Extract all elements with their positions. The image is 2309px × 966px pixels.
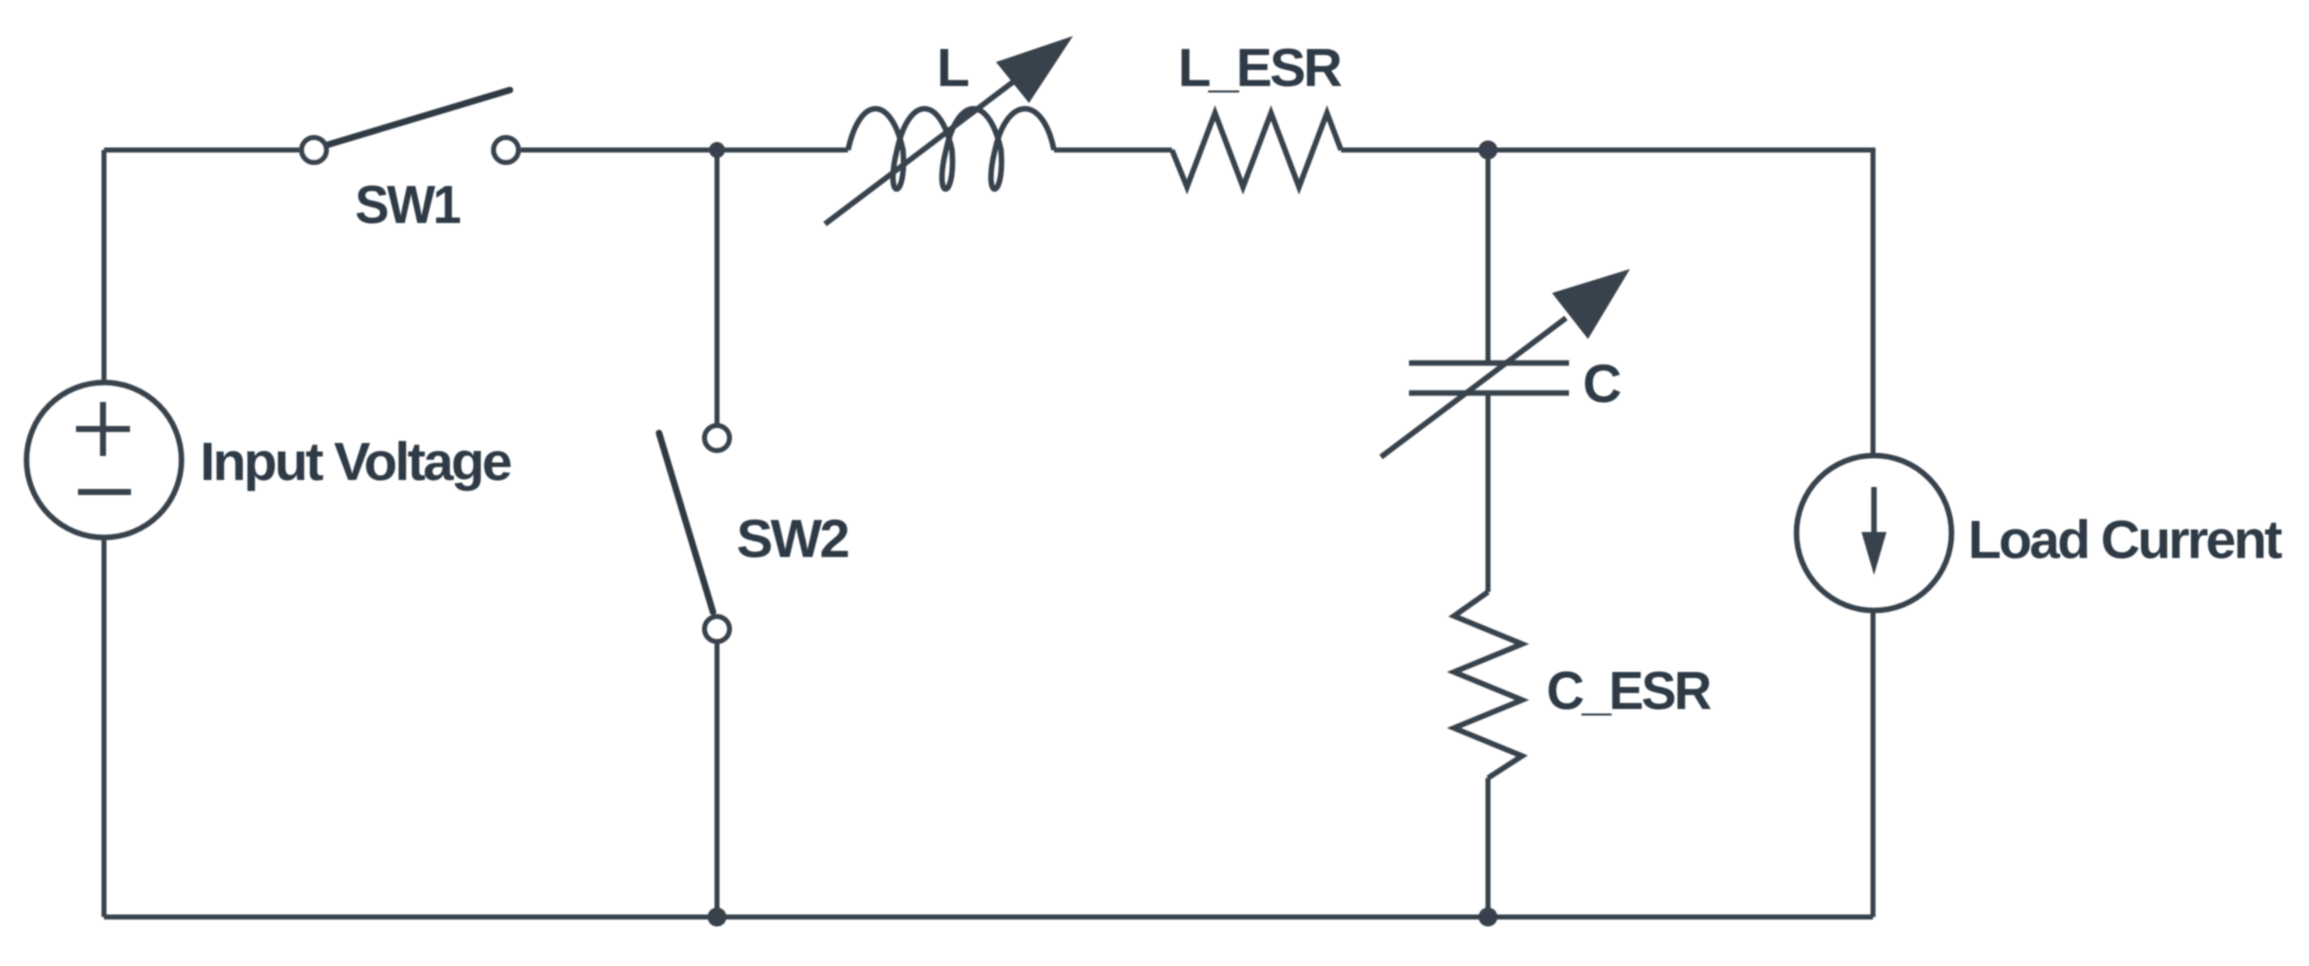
svg-text:C_ESR: C_ESR bbox=[1547, 661, 1711, 721]
svg-text:C: C bbox=[1583, 354, 1621, 414]
svg-text:Input Voltage: Input Voltage bbox=[200, 432, 511, 492]
svg-text:L: L bbox=[937, 38, 969, 98]
svg-text:SW1: SW1 bbox=[355, 175, 460, 235]
svg-text:L_ESR: L_ESR bbox=[1178, 38, 1341, 98]
svg-text:Load Current: Load Current bbox=[1968, 510, 2283, 570]
svg-text:SW2: SW2 bbox=[737, 509, 848, 569]
